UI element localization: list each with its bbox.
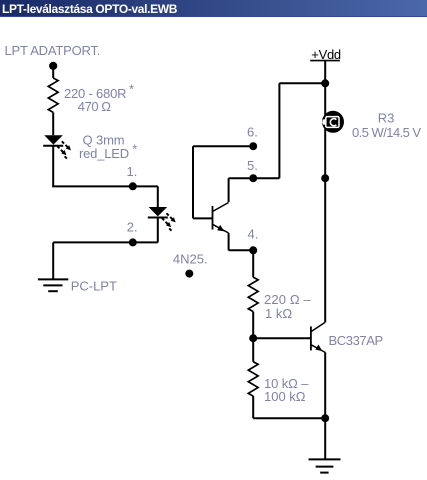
wire [193,217,212,219]
free pin dot 4N25 [185,270,193,278]
wire [324,61,326,323]
wire [228,178,230,202]
svg-text:*: * [132,142,137,157]
svg-text:220 Ω –: 220 Ω – [264,292,312,307]
power +Vdd symbol [310,47,341,62]
wire [252,250,254,277]
wire [324,352,326,459]
wire [52,112,54,135]
svg-text:4.: 4. [248,227,259,242]
wire [253,417,325,419]
svg-text:LPT ADATPORT.: LPT ADATPORT. [5,43,101,58]
svg-text:470 Ω: 470 Ω [78,99,112,114]
svg-text:2.: 2. [127,219,138,234]
node 1 [129,182,137,190]
wire [52,66,54,78]
wire [229,177,280,179]
svg-text:red_LED: red_LED [79,146,129,161]
phototransistor 4N25 [213,203,229,234]
svg-text:LPT-leválasztása OPTO-val.EWB: LPT-leválasztása OPTO-val.EWB [2,2,178,16]
wire [52,146,54,187]
wire [252,338,254,362]
transistor Q2 BC337 [311,322,325,352]
resistor R2 zigzag [248,277,258,311]
ground right [309,459,341,472]
node base junction [249,334,257,342]
lamp R3 [322,111,344,133]
node 6 [249,142,257,150]
svg-text:1 kΩ: 1 kΩ [265,306,292,321]
wire [53,241,158,243]
node Vdd junction [321,79,329,87]
wire [192,146,194,218]
svg-text:100 kΩ: 100 kΩ [264,389,306,404]
LED D1 red_LED [43,135,71,158]
svg-text:6.: 6. [247,124,258,139]
LED D2 opto emitter [148,207,176,231]
node LPT data terminal [49,62,57,70]
wire [252,396,254,418]
wire [229,249,254,251]
wire [52,242,54,279]
svg-text:0.5 W/14.5 V: 0.5 W/14.5 V [352,125,421,140]
node emitter junction [321,414,329,422]
node 4 [249,246,257,254]
wire [157,218,159,243]
svg-text:+Vdd: +Vdd [311,47,341,62]
svg-text:4N25.: 4N25. [173,252,208,267]
ground PC-LPT [38,279,68,291]
svg-text:1.: 1. [127,164,138,179]
node 2 [129,238,137,246]
wire [157,186,159,207]
wire [278,83,280,178]
resistor R1 zigzag [48,78,58,112]
wire [253,337,311,339]
svg-text:*: * [129,81,134,96]
wire [279,82,325,84]
node 5 [249,174,257,182]
wire [193,145,253,147]
resistor R4 zigzag [248,362,258,396]
node lamp junction [321,174,329,182]
wire [252,312,254,339]
svg-text:BC337AP: BC337AP [329,333,383,348]
svg-text:5.: 5. [247,158,258,173]
wire [228,233,230,250]
wire [52,185,158,187]
window title bar [0,0,427,17]
svg-text:R3: R3 [378,111,395,126]
svg-text:PC-LPT: PC-LPT [71,279,117,294]
